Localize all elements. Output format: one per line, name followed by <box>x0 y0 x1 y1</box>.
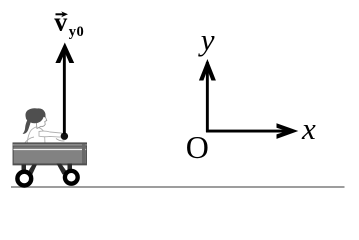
right wheel strut <box>57 164 73 175</box>
ground line <box>11 186 345 188</box>
left wheel strut <box>22 165 38 177</box>
x-axis <box>206 123 298 139</box>
svg-text:v: v <box>54 7 67 36</box>
right wheel <box>65 171 78 184</box>
person (girl sitting in wagon) <box>23 108 65 144</box>
svg-text:y: y <box>198 22 215 57</box>
velocity vector shaft <box>63 50 66 134</box>
svg-text:0: 0 <box>77 24 84 40</box>
velocity vector arrowhead <box>55 43 74 64</box>
left wheel <box>17 172 31 186</box>
svg-text:x: x <box>301 111 316 146</box>
wagon body <box>13 143 87 165</box>
label vector v_y0 <box>54 7 83 40</box>
ball <box>61 133 68 140</box>
y-axis <box>199 59 216 132</box>
svg-text:O: O <box>186 129 209 165</box>
